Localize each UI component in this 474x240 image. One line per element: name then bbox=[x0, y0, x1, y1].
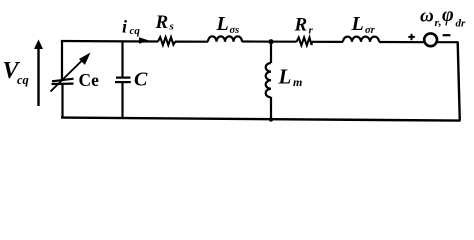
label i_cq bbox=[122, 17, 140, 38]
label C bbox=[134, 69, 148, 91]
svg-text:i: i bbox=[122, 17, 127, 37]
svg-text:R: R bbox=[294, 15, 308, 36]
source U1 circle bbox=[424, 33, 437, 46]
label Ce bbox=[79, 70, 100, 90]
svg-text:R: R bbox=[155, 12, 169, 33]
svg-text:,: , bbox=[438, 14, 442, 28]
resistor R_s bbox=[158, 37, 175, 45]
svg-text:cq: cq bbox=[17, 73, 29, 87]
svg-text:L: L bbox=[216, 13, 229, 35]
svg-text:L: L bbox=[278, 65, 292, 89]
inductor L_gr bbox=[343, 37, 379, 42]
svg-text:s: s bbox=[169, 20, 174, 32]
capacitor C bbox=[115, 78, 131, 83]
resistor R_r bbox=[297, 38, 313, 46]
label omega_r phi_dr bbox=[420, 4, 466, 30]
label V_cq bbox=[3, 58, 29, 87]
wire bottom rail bbox=[61, 118, 461, 121]
svg-text:C: C bbox=[134, 69, 148, 91]
variable capacitor Ce bbox=[51, 53, 91, 92]
current arrow i_cq bbox=[139, 37, 149, 44]
inductor L_gs bbox=[208, 36, 242, 41]
label L_gs bbox=[216, 13, 240, 36]
svg-text:cq: cq bbox=[130, 25, 141, 37]
wire right vertical bbox=[458, 41, 460, 120]
svg-text:dr: dr bbox=[456, 18, 467, 30]
svg-text:r: r bbox=[309, 25, 314, 37]
svg-text:Ce: Ce bbox=[79, 70, 100, 90]
minus sign bbox=[443, 34, 451, 36]
node junction bottom bbox=[269, 117, 273, 121]
inductor L_m bbox=[266, 63, 271, 97]
svg-text:φ: φ bbox=[442, 4, 454, 26]
label L_m bbox=[278, 65, 303, 90]
svg-text:L: L bbox=[351, 13, 364, 35]
plus sign bbox=[408, 34, 415, 40]
voltage arrow V_cq bbox=[34, 40, 43, 107]
label L_gr bbox=[351, 13, 376, 36]
label R_r bbox=[294, 15, 314, 37]
label R_s bbox=[155, 12, 174, 33]
svg-text:ω: ω bbox=[420, 6, 434, 27]
wire L_m branch bbox=[270, 42, 272, 120]
svg-text:σs: σs bbox=[230, 25, 240, 36]
wire top rail bbox=[61, 41, 458, 42]
node junction top bbox=[268, 39, 273, 44]
wire left vertical branch bbox=[61, 41, 64, 119]
svg-text:m: m bbox=[293, 75, 302, 89]
capacitor C branch wire bbox=[121, 41, 123, 118]
svg-text:σr: σr bbox=[365, 25, 376, 36]
